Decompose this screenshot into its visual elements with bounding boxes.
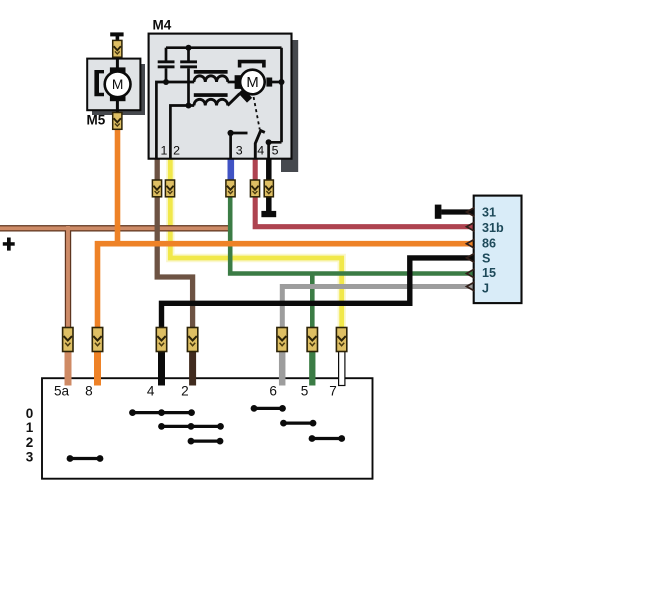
contact bar position 1 (pins 6-5) — [280, 420, 316, 427]
svg-text:S: S — [482, 252, 490, 266]
node top bus / C2 junction — [186, 45, 192, 51]
svg-text:4: 4 — [257, 144, 264, 158]
wire M4 pin3 to park contact — [231, 133, 248, 158]
svg-text:31b: 31b — [482, 221, 504, 235]
wiper motor M4 box — [149, 34, 292, 159]
wire yellow (M4 pin2 to switch pin7) — [170, 159, 341, 343]
connector on M4 pin2 wire — [165, 180, 174, 197]
svg-text:1: 1 — [26, 420, 34, 435]
wire gray stub into switch block pin6 — [279, 342, 286, 386]
contact bar position 3 (pins 5a-8) — [67, 455, 104, 462]
svg-text:5a: 5a — [54, 383, 70, 398]
svg-text:0: 0 — [26, 406, 34, 421]
svg-text:M: M — [246, 75, 258, 91]
svg-text:15: 15 — [482, 266, 496, 280]
wire green stub into switch block pin5 — [309, 342, 315, 386]
terminal block (fuse/relay connector) — [474, 196, 522, 304]
node C1 junction on line1 — [163, 79, 169, 85]
battery plus label — [3, 238, 15, 251]
motor M5 commutator top block — [110, 67, 126, 74]
contact bar position 0 (pins 4-2) — [129, 409, 195, 416]
connector on M4 pin1 wire — [152, 180, 161, 197]
svg-text:2: 2 — [26, 435, 34, 450]
connector on M4 pin4 wire — [250, 180, 259, 197]
wire orange stub into switch block pin8 — [94, 342, 101, 386]
wire right bus to pin5 — [269, 142, 282, 158]
wire gray (terminal J to switch pin6) — [282, 287, 473, 343]
capacitor C1 — [158, 48, 175, 82]
wire black (M4 pin5 to ground) — [266, 159, 272, 213]
connector on M5 supply wire — [113, 40, 122, 57]
motor M5 stator bracket — [94, 70, 104, 96]
svg-text:7: 7 — [329, 383, 337, 398]
ground symbol at M4 pin5 wire — [261, 211, 276, 217]
svg-text:J: J — [482, 282, 489, 296]
wire L1 to motor left brush — [228, 81, 236, 84]
arrow into terminal 31 — [467, 208, 475, 217]
ground symbol above M5 — [110, 32, 123, 42]
svg-text:8: 8 — [85, 383, 93, 398]
arrow into terminal J — [467, 282, 475, 291]
connector on switch pin 5 wire — [307, 328, 317, 352]
svg-text:6: 6 — [269, 383, 277, 398]
connector on switch pin 4 wire — [156, 328, 166, 352]
node pin3 contact — [228, 130, 234, 136]
inductor L2 winding — [194, 99, 228, 105]
svg-text:31: 31 — [482, 206, 496, 220]
motor M5 armature leads — [116, 59, 119, 70]
inductor L1 winding — [194, 76, 228, 82]
svg-text:5: 5 — [301, 383, 309, 398]
motor M4 left brush — [235, 75, 242, 89]
ground symbol at terminal 31 wire — [435, 205, 442, 219]
connector on switch pin 7 wire — [336, 328, 346, 352]
arrow into terminal 31b — [467, 222, 475, 231]
contact bar position 0 (pin 6) — [251, 405, 286, 412]
svg-text:2: 2 — [181, 383, 189, 398]
node park switch contact / pin5 — [266, 139, 272, 145]
wire dark-brown stub into switch block pin2 — [189, 342, 196, 386]
svg-text:86: 86 — [482, 236, 496, 250]
inductor L2 core bar — [194, 93, 228, 97]
connector on switch pin 6 wire — [277, 328, 287, 352]
wire M4 internal top bus — [166, 46, 282, 49]
wire blue (M4 pin3 stub) — [228, 159, 235, 191]
wire brown (M4 pin1 to switch pin2) — [157, 159, 192, 343]
wire M5 supply (black lead through connector) — [116, 41, 119, 60]
motor M4 right brush — [266, 78, 272, 87]
motor M5 box — [87, 59, 140, 111]
svg-text:5: 5 — [272, 144, 279, 158]
park switch SW arm (pin4) — [255, 131, 264, 158]
node C2 junction on line2 — [186, 103, 192, 109]
svg-text:2: 2 — [173, 144, 180, 158]
svg-text:1: 1 — [160, 144, 167, 158]
svg-text:3: 3 — [236, 144, 243, 158]
wire motor right brush to bus — [272, 81, 282, 84]
contact bar position 1 (pins 4-2) — [158, 423, 224, 430]
wire L2 to motor lower brush — [228, 94, 240, 106]
motor M5 box shadow — [92, 64, 145, 115]
svg-text:4: 4 — [147, 383, 155, 398]
wire M4 pin1 to line1 — [156, 82, 194, 158]
inductor L1 core bar — [194, 70, 228, 74]
wire black stub into switch block pin4 — [158, 342, 165, 386]
svg-text:M: M — [112, 77, 124, 92]
capacitor C2 — [180, 48, 197, 106]
wiper motor M4 box shadow — [281, 40, 298, 172]
connector on switch pin 2 wire — [187, 328, 197, 352]
wire M4 right bus vertical — [280, 48, 283, 143]
svg-text:M4: M4 — [153, 18, 172, 33]
connector on switch pin 5a wire — [63, 328, 73, 352]
park switch actuating dashed link — [254, 97, 260, 129]
motor M5 body circle — [105, 71, 131, 97]
node right bus junction — [279, 79, 285, 85]
wire M5 bottom lead — [116, 110, 119, 115]
wire salmon 5a (battery + feed) — [0, 225, 232, 340]
connector on M4 pin3 wire — [226, 180, 235, 197]
svg-text:3: 3 — [26, 449, 34, 464]
wire white stub into switch block pin7 — [339, 338, 345, 386]
wire black S (terminal S to switch pin4) — [162, 258, 474, 342]
contact bar position 2 (pin 2) — [188, 438, 224, 445]
wire M4 pin2 to line2 — [170, 106, 194, 159]
wire salmon 5a stub into switch block — [65, 340, 72, 386]
switch block S body (wiper switch contact table box) — [42, 378, 373, 479]
connector on M4 pin5 wire — [264, 180, 273, 197]
wire red (M4 pin4 to terminal 31b) — [255, 159, 473, 227]
contact bar position 2 (pins 5-7) — [309, 435, 346, 442]
wire green (pin3/terminal 15 net) — [230, 188, 473, 342]
arrow into terminal 86 — [467, 239, 475, 248]
motor M4 top bracket — [238, 60, 266, 68]
connector on switch pin 8 wire — [92, 328, 102, 352]
wire orange (M5 / terminal 86 / switch pin8) — [95, 129, 474, 343]
arrow into terminal 15 — [467, 269, 475, 278]
connector below M5 — [113, 113, 122, 130]
motor M4 body circle — [240, 70, 265, 95]
motor M5 commutator bottom block — [110, 95, 126, 102]
svg-text:M5: M5 — [87, 113, 106, 128]
motor M4 lower-left brush — [238, 89, 252, 103]
arrow into terminal S — [467, 253, 475, 262]
wire black (terminal 31 to ground) — [441, 209, 473, 214]
